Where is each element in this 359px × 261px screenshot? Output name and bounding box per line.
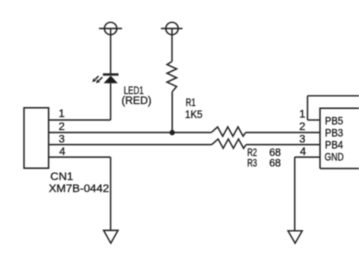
ground symbol G2 (288, 231, 302, 243)
svg-text:1K5: 1K5 (185, 109, 203, 121)
wire U1 pin1 (308, 119, 321, 121)
svg-text:2: 2 (59, 121, 65, 133)
svg-text:3: 3 (299, 133, 305, 145)
resistor R2 zigzag (211, 127, 245, 136)
resistor R1 zigzag (167, 62, 177, 92)
wire R3 to PB4 (246, 144, 320, 146)
LED emission arrow 2 (96, 77, 102, 83)
wire R1 to row2 junction (171, 92, 173, 133)
svg-text:PB5: PB5 (325, 115, 343, 127)
wire CN1 pin3 to R3 (49, 144, 212, 146)
power symbol P1 (99, 22, 122, 35)
svg-text:4: 4 (59, 146, 65, 158)
wire LED1 to pin1 row (110, 83, 112, 120)
svg-text:4: 4 (300, 146, 306, 158)
wire U1 pin4 GND (295, 156, 320, 158)
wire pin4 down to ground (110, 157, 112, 230)
svg-text:1: 1 (299, 109, 305, 121)
LED LED1 symbol (103, 75, 119, 84)
resistor R3 zigzag (212, 139, 246, 148)
connector CN1 body (24, 108, 49, 168)
svg-text:68: 68 (269, 158, 281, 170)
LED emission arrow 1 (92, 76, 98, 82)
wire P1 to LED1 (110, 35, 112, 74)
svg-text:R3: R3 (247, 158, 257, 170)
wire GND down to ground G2 (294, 157, 296, 231)
svg-text:3: 3 (59, 133, 65, 145)
ground symbol G1 (104, 230, 118, 243)
wire riser to pin1 of U1 (307, 96, 309, 120)
svg-text:2: 2 (299, 121, 305, 133)
junction dot (170, 130, 175, 135)
power symbol P2 (161, 22, 183, 35)
svg-text:CN1: CN1 (50, 171, 73, 183)
wire CN1 pin4 (49, 156, 111, 158)
svg-text:(RED): (RED) (122, 95, 152, 107)
svg-text:PB3: PB3 (325, 127, 343, 139)
svg-text:R1: R1 (186, 97, 196, 109)
wire CN1 pin1 (49, 119, 111, 121)
svg-text:1: 1 (59, 108, 65, 120)
svg-text:GND: GND (325, 152, 344, 164)
wire top right net (308, 95, 359, 97)
wire P2 to R1 (171, 35, 173, 62)
wire CN1 pin2 to R2 (49, 132, 212, 134)
svg-text:XM7B-0442: XM7B-0442 (49, 183, 109, 195)
svg-text:PB4: PB4 (325, 139, 343, 151)
connector U1 body (320, 108, 359, 168)
wire R2 to PB3 (246, 132, 320, 134)
